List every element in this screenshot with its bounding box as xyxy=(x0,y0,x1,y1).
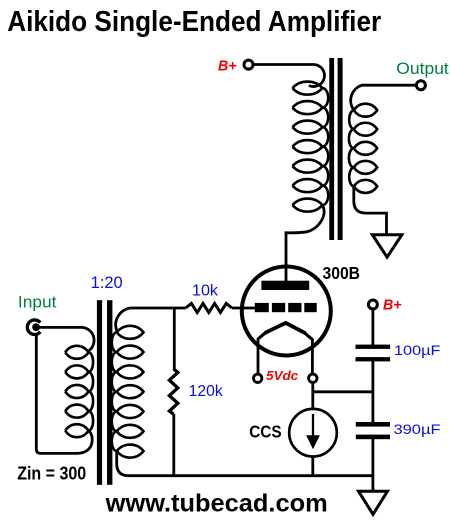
wire CCS bottom xyxy=(311,456,314,476)
terminal B+ top xyxy=(244,60,253,69)
wire input pin to T1 primary top xyxy=(37,327,94,351)
wire T1 primary bottom loop xyxy=(36,335,92,453)
wire between capacitors xyxy=(371,361,374,424)
svg-text:100µF: 100µF xyxy=(394,343,441,359)
svg-text:10k: 10k xyxy=(192,283,218,300)
wire plate lead inside envelope xyxy=(285,263,288,281)
wire 120k top lead xyxy=(173,308,176,370)
arrow inside CCS xyxy=(312,414,314,437)
transformer T2 primary winding xyxy=(293,82,329,212)
wire T1 secondary top to 10k xyxy=(116,308,186,332)
wire cathode junction to capacitor rail xyxy=(313,390,373,393)
svg-text:5Vdc: 5Vdc xyxy=(266,368,299,383)
wire output terminal to T2 secondary top xyxy=(351,85,416,110)
wire filament left lead xyxy=(257,338,260,373)
wire cathode down to CCS xyxy=(311,383,314,410)
ground output xyxy=(372,235,402,257)
resistor 10k xyxy=(186,304,232,313)
transformer T1 core xyxy=(97,300,102,485)
svg-text:1:20: 1:20 xyxy=(91,274,123,292)
terminal filament left xyxy=(254,374,262,382)
wire filament right lead xyxy=(311,339,314,374)
grid of 300B (dashed) xyxy=(255,303,317,312)
svg-text:CCS: CCS xyxy=(249,421,282,441)
svg-text:www.tubecad.com: www.tubecad.com xyxy=(105,489,328,517)
svg-text:Output: Output xyxy=(396,59,449,78)
resistor 120k xyxy=(169,369,177,415)
svg-text:390µF: 390µF xyxy=(394,422,441,438)
wire B+ to output transformer primary top xyxy=(253,64,324,86)
transformer T1 primary winding xyxy=(65,346,93,437)
wire T1 secondary bottom to bottom rail xyxy=(117,451,373,476)
wire B+ right to 100uF xyxy=(371,309,374,345)
terminal Input jack xyxy=(27,320,40,335)
capacitor 100uF xyxy=(356,345,391,349)
svg-text:Zin = 300: Zin = 300 xyxy=(17,464,86,484)
svg-text:B+: B+ xyxy=(383,296,402,313)
wire grid lead from 10k xyxy=(232,307,255,310)
filament of 300B xyxy=(265,323,305,333)
current source CCS xyxy=(289,409,337,457)
transformer T2 core xyxy=(329,58,334,240)
transformer T2 secondary winding xyxy=(349,104,377,193)
plate of 300B xyxy=(261,281,309,290)
wire 120k bottom lead xyxy=(172,414,175,476)
wire T2 secondary bottom to ground xyxy=(354,186,387,234)
ground bottom right xyxy=(359,491,388,514)
input pin dot xyxy=(32,323,40,331)
svg-text:Input: Input xyxy=(18,294,57,312)
capacitor 390uF xyxy=(356,422,390,427)
svg-text:300B: 300B xyxy=(323,263,361,283)
terminal Output xyxy=(416,81,425,90)
transformer T1 secondary winding xyxy=(112,326,144,458)
terminal B+ right xyxy=(368,300,377,309)
wire T2 primary bottom to tube plate xyxy=(286,205,324,281)
tube 300B envelope xyxy=(242,267,331,356)
wire 390uF to ground xyxy=(371,438,374,492)
svg-text:Aikido Single-Ended Amplifier: Aikido Single-Ended Amplifier xyxy=(7,6,381,38)
svg-text:B+: B+ xyxy=(218,57,237,74)
svg-text:120k: 120k xyxy=(189,383,223,400)
terminal filament right xyxy=(309,374,317,382)
